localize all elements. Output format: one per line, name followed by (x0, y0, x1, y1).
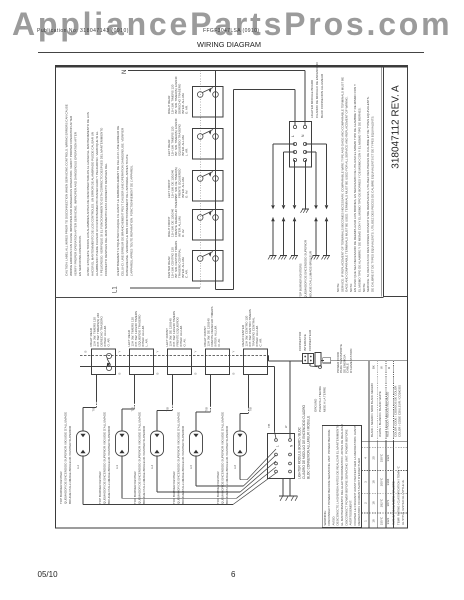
svg-text:TEMP. RATING / CLASSIFICATION: TEMP. RATING / CLASSIFICATION / TEMP. °C (396, 466, 400, 525)
svg-text:GROUND: GROUND (314, 398, 318, 412)
svg-text:A-5: A-5 (189, 464, 193, 469)
svg-text:BOUGIE D'ALLUMAGE-BRULEUR / IG: BOUGIE D'ALLUMAGE-BRULEUR / IGNITER SUPE… (107, 425, 111, 504)
svg-text:BOUGIE D'ALLUMAGE-BRULEUR / IG: BOUGIE D'ALLUMAGE-BRULEUR / IGNITER SUPE… (181, 425, 185, 504)
svg-text:QUEMADOR DE ENCENDIDO SUPERIOR: QUEMADOR DE ENCENDIDO SUPERIOR / BOUGIE … (177, 412, 181, 504)
svg-text:O. AR.: O. AR. (185, 105, 189, 114)
svg-text:WIRING DIAGRAM: WIRING DIAGRAM (197, 40, 261, 49)
svg-text:BOUGIE D'ALLUMAGE-BRULEUR / IG: BOUGIE D'ALLUMAGE-BRULEUR / IGNITER SUPE… (142, 425, 146, 504)
svg-text:6: 6 (231, 570, 236, 579)
svg-text:20: 20 (372, 456, 376, 460)
svg-text:C. AR.: C. AR. (259, 338, 263, 347)
svg-text:QUEMADOR DE ENCENDIDO SUPERIOR: QUEMADOR DE ENCENDIDO SUPERIOR / BOUGIE … (64, 412, 68, 504)
svg-text:BLOC CONNEXION ALLUMEUR: BLOC CONNEXION ALLUMEUR (320, 73, 324, 118)
svg-text:200°C: 200°C (380, 477, 384, 486)
svg-text:INTERFACE: INTERFACE (303, 334, 307, 351)
svg-text:2: 2 (363, 502, 367, 504)
svg-text:BOUGIE D'ALLUMAGE-BRULEUR: BOUGIE D'ALLUMAGE-BRULEUR (309, 250, 313, 298)
svg-text:B: B (194, 373, 198, 375)
svg-text:CORRECTO DESPUES DEL MANTENIMI: CORRECTO DESPUES DEL MANTENIMIENTO ESTA … (104, 163, 108, 276)
svg-text:T/B: T/B (166, 407, 170, 411)
svg-text:A-3: A-3 (115, 464, 119, 469)
svg-text:FFGF3047LSA (0910): FFGF3047LSA (0910) (203, 28, 259, 34)
svg-text:O. AR.: O. AR. (107, 337, 111, 346)
svg-text:CUADRO DE MODULO DE ENCENDIDO: CUADRO DE MODULO DE ENCENDIDO CUADRO (302, 404, 306, 479)
svg-text:18: 18 (372, 480, 376, 484)
svg-text:PUESTA A TIERRA: PUESTA A TIERRA (318, 386, 322, 412)
svg-text:Y/B: Y/B (267, 424, 271, 428)
svg-text:3071: 3071 (386, 499, 390, 506)
svg-text:QUEMADOR DE ENCENDIDO SUPERIOR: QUEMADOR DE ENCENDIDO SUPERIOR / BOUGIE … (221, 412, 225, 504)
svg-text:Y PELIGROSO. VERIFIQUE SI EL F: Y PELIGROSO. VERIFIQUE SI EL FUNCIONAMIE… (100, 127, 104, 276)
svg-text:BK: BK (372, 365, 376, 369)
svg-text:TOP BURNER IGNITER: TOP BURNER IGNITER (133, 471, 137, 504)
svg-text:C. AR.: C. AR. (185, 269, 189, 278)
svg-text:WIRING ERRORS CAN CAUSE IMPROP: WIRING ERRORS CAN CAUSE IMPROPER AND DAN… (69, 115, 73, 276)
svg-text:O. AV.: O. AV. (185, 190, 189, 198)
svg-text:EL MISMO TIPO DE ALAMBRE Y DE: EL MISMO TIPO DE ALAMBRE Y DE MISMO CON … (358, 107, 362, 292)
svg-text:Y: Y (194, 351, 198, 353)
svg-text:1: 1 (363, 520, 367, 522)
svg-text:318047112 REV. A: 318047112 REV. A (391, 85, 402, 169)
svg-text:L: L (291, 135, 295, 137)
svg-text:W: W (380, 366, 384, 369)
svg-text:D'ALIMENTATION: D'ALIMENTATION (349, 349, 353, 373)
svg-text:T/B: T/B (205, 407, 209, 411)
svg-text:Y: Y (118, 351, 122, 353)
svg-text:3304: 3304 (386, 478, 390, 485)
svg-text:18: 18 (372, 519, 376, 523)
svg-text:3321: 3321 (386, 517, 390, 524)
svg-text:B: B (232, 373, 236, 375)
svg-text:O. AV.: O. AV. (183, 338, 187, 346)
svg-text:CONNECTOR: CONNECTOR (298, 331, 302, 351)
svg-text:TOP BURNER IGNITER: TOP BURNER IGNITER (216, 471, 220, 504)
svg-text:CELUI-CI. UNE ERREUR DE BRANCH: CELUI-CI. UNE ERREUR DE BRANCHEMENT PEUT… (121, 127, 125, 276)
svg-text:UL STYLE / ESTILO UL / S: UL STYLE / ESTILO UL / STYLE UL (401, 479, 405, 525)
svg-text:A-2: A-2 (76, 464, 80, 469)
svg-text:BLACK / NEGRO / NOIR BLA: BLACK / NEGRO / NOIR BLACK NEGRO (370, 382, 374, 437)
svg-text:QUEMADOR DE ENCENDIDO SUPERIOR: QUEMADOR DE ENCENDIDO SUPERIOR / BOUGIE … (138, 412, 142, 504)
svg-text:L: L (276, 445, 280, 447)
svg-text:CONNECTEUR: CONNECTEUR (308, 329, 312, 351)
svg-text:COLOR / CODE COULEUR / CODIGOS: COLOR / CODE COULEUR / CODIGOS (398, 385, 402, 437)
svg-text:N: N (301, 134, 305, 137)
svg-text:A-4: A-4 (150, 464, 154, 469)
svg-text:BLOC CONNEXION ALLUMEUR / MODU: BLOC CONNEXION ALLUMEUR / MODULE (307, 416, 311, 479)
svg-text:N: N (122, 70, 128, 74)
svg-text:B: B (156, 373, 160, 375)
svg-text:T/B: T/B (249, 407, 253, 411)
svg-text:DISCONNECT POWER BEFORE SERVIC: DISCONNECT POWER BEFORE SERVICING UNIT. … (327, 429, 331, 525)
svg-text:QUEMADOR DE ENCENDIDO SUPERIOR: QUEMADOR DE ENCENDIDO SUPERIOR / BOUGIE … (103, 412, 107, 504)
svg-text:AVERTISSEMENT: ETIQUETER CHAQ: AVERTISSEMENT: ETIQUETER CHAQUE FIL AVAN… (116, 126, 120, 276)
svg-text:Y: Y (156, 351, 160, 353)
svg-text:282°C: 282°C (380, 498, 384, 507)
svg-text:4: 4 (363, 457, 367, 459)
svg-text:O. AV.: O. AV. (181, 229, 185, 237)
svg-text:BOUGIE D'ALLUMAGE-BRULEUR / IG: BOUGIE D'ALLUMAGE-BRULEUR / IGNITER SUPE… (68, 425, 72, 504)
svg-text:18: 18 (372, 501, 376, 505)
svg-text:N: N (290, 444, 294, 447)
svg-text:Y: Y (232, 351, 236, 353)
svg-text:3: 3 (363, 481, 367, 483)
svg-text:TOP BURNER IGNITER: TOP BURNER IGNITER (172, 471, 176, 504)
svg-text:HACER EL MANTENIMIENTO DE LOS: HACER EL MANTENIMIENTO DE LOS CONTROLES.… (91, 132, 95, 276)
svg-text:REPARATION. COURANT AVANT D'EF: REPARATION. COURANT AVANT D'EFFECTUER (357, 457, 361, 525)
svg-text:CAUTION: LABEL ALL WIRES PRIO: CAUTION: LABEL ALL WIRES PRIOR TO DISCON… (65, 104, 69, 276)
svg-text:GAGE AND COMPARABLE TERMINALS: GAGE AND COMPARABLE TERMINALS MUST BE US… (345, 96, 349, 292)
svg-text:B: B (118, 373, 122, 375)
svg-text:B: B (84, 351, 88, 353)
svg-text:TOP BURNER IGNITER: TOP BURNER IGNITER (98, 471, 102, 504)
svg-text:05/10: 05/10 (38, 570, 59, 579)
svg-text:QUEMADOR DE ENCENDIDO SUPERIOR: QUEMADOR DE ENCENDIDO SUPERIOR (304, 239, 308, 298)
svg-text:T/B: T/B (131, 407, 135, 411)
svg-text:WHITE / BLANCO / BLANC W: WHITE / BLANCO / BLANC WHITE (378, 391, 382, 437)
svg-text:LIGHTER MODULE BOARD / BLOC: LIGHTER MODULE BOARD / BLOC (298, 426, 302, 479)
svg-text:DANGEREUSE. VERIFIER LE BON FO: DANGEREUSE. VERIFIER LE BON FONCTIONNEME… (125, 154, 129, 276)
svg-text:3321: 3321 (386, 454, 390, 461)
svg-text:TOP BURNER IGNITERS: TOP BURNER IGNITERS (299, 263, 303, 298)
svg-text:CUADRO DE MODULO DE ENCENDIDO: CUADRO DE MODULO DE ENCENDIDO (315, 61, 319, 118)
svg-text:EN SERVICING OPERATION.: EN SERVICING OPERATION. (78, 235, 82, 276)
svg-text:R: R (387, 367, 391, 369)
svg-text:L. AR.: L. AR. (145, 338, 149, 346)
svg-text:155°C: 155°C (380, 516, 384, 525)
svg-text:L'APPAREIL APRES TOUTE REPARAT: L'APPAREIL APRES TOUTE REPARATION. FONCT… (130, 165, 134, 276)
svg-text:BOUGIE D'ALLUMAGE-BRULEUR / IG: BOUGIE D'ALLUMAGE-BRULEUR / IGNITER SUPE… (225, 425, 229, 504)
svg-text:T/B: T/B (92, 407, 96, 411)
svg-text:W: W (284, 425, 288, 428)
svg-text:O. AV.: O. AV. (217, 338, 221, 346)
svg-text:A-6: A-6 (233, 464, 237, 469)
svg-text:L. AR.: L. AR. (185, 148, 189, 156)
svg-text:TOP BURNER IGNITER: TOP BURNER IGNITER (59, 471, 63, 504)
svg-text:VERIFY PROPER OPERATION AFTER: VERIFY PROPER OPERATION AFTER SERVICING.… (74, 131, 78, 276)
svg-text:AWG GAGE ALAMBRE / CALIBRE: AWG GAGE ALAMBRE / CALIBRE (392, 481, 396, 525)
svg-text:Publication No: 318047143 (09: Publication No: 318047143 (0910) (37, 28, 129, 34)
svg-text:DE CALIBRE ET DE TYPES EQUIVAL: DE CALIBRE ET DE TYPES EQUIVALENTS. UTIL… (370, 116, 374, 292)
svg-text:LIGHTER MODULE BOARD: LIGHTER MODULE BOARD (310, 79, 314, 118)
svg-text:AVISO: ETIQUETE TODOS LOS ALA: AVISO: ETIQUETE TODOS LOS ALAMBRES ANTES… (86, 112, 90, 276)
svg-text:MISE A LA TERRE: MISE A LA TERRE (323, 387, 327, 412)
svg-text:L1: L1 (113, 286, 119, 293)
svg-text:RED / ROJO / ROUGE RED: RED / ROJO / ROUGE RED ROJO (386, 391, 390, 437)
svg-text:150°C: 150°C (380, 453, 384, 462)
svg-text:ALAMBRADO PUEDE CAUSAR UN FUNC: ALAMBRADO PUEDE CAUSAR UN FUNCIONAMIENTO… (95, 131, 99, 276)
